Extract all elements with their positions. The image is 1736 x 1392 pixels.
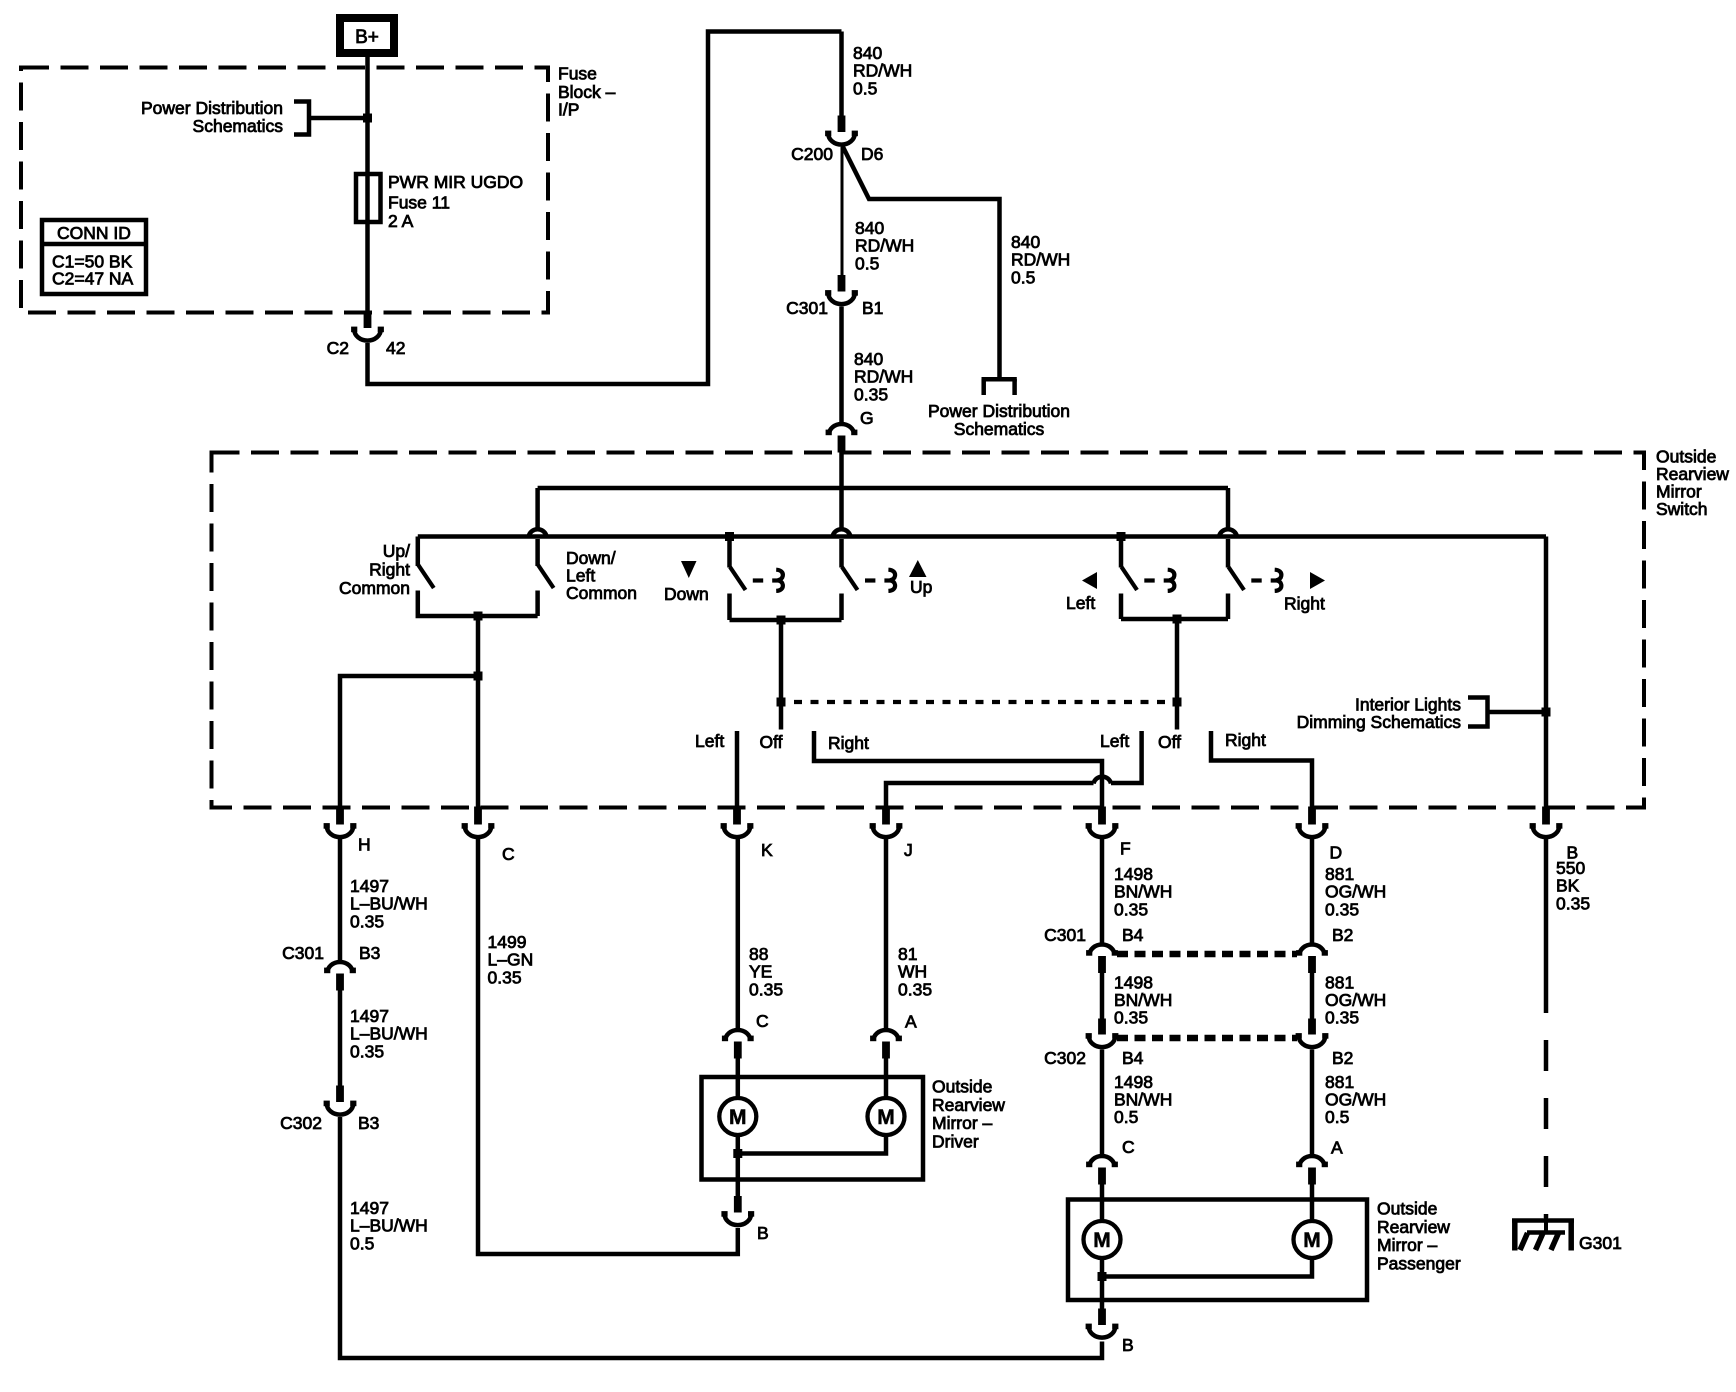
svg-text:2 A: 2 A <box>388 211 414 231</box>
rail Down/Up pair <box>730 618 842 623</box>
svg-text:B: B <box>757 1223 769 1243</box>
svg-text:C: C <box>1122 1137 1135 1157</box>
connector C301 pin B1 <box>838 275 846 292</box>
svg-text:M: M <box>1093 1229 1111 1252</box>
ground G301 symbol <box>1512 1218 1574 1223</box>
contact Right G1 <box>814 731 1102 807</box>
mechanical dashes C301 <box>1117 951 1297 958</box>
connector switch pin D <box>1308 807 1316 825</box>
svg-text:Left: Left <box>1066 593 1095 613</box>
wire B solid <box>1544 838 1549 1013</box>
wire J to driver A <box>884 838 889 1030</box>
svg-text:C: C <box>502 844 515 864</box>
svg-text:Left: Left <box>695 731 724 751</box>
svg-text:PWR MIR UGDO: PWR MIR UGDO <box>388 172 523 192</box>
svg-text:Rearview: Rearview <box>932 1095 1005 1115</box>
svg-text:C301: C301 <box>1044 925 1086 945</box>
svg-text:F: F <box>1120 839 1131 859</box>
outside rearview mirror switch dashed box <box>212 453 1645 808</box>
switch Down/Left Common <box>535 488 540 528</box>
svg-text:0.35: 0.35 <box>350 911 384 931</box>
connector driver mirror pin B <box>734 1196 742 1213</box>
svg-text:B1: B1 <box>862 298 883 318</box>
svg-text:0.35: 0.35 <box>1325 1008 1359 1028</box>
svg-text:Outside: Outside <box>1377 1199 1437 1219</box>
wire D C301 to C302 <box>1310 973 1315 1019</box>
outside rearview mirror passenger box <box>1068 1200 1367 1301</box>
wire B+ to fuse <box>365 57 370 312</box>
connector C302 pin B4 <box>1098 1019 1106 1035</box>
wire into driver box A <box>884 1059 889 1099</box>
svg-text:Driver: Driver <box>932 1132 979 1152</box>
svg-text:G: G <box>860 408 874 428</box>
svg-text:0.35: 0.35 <box>749 979 783 999</box>
wire passenger B out <box>1100 1277 1105 1309</box>
svg-text:C302: C302 <box>280 1113 322 1133</box>
svg-text:Right: Right <box>828 733 869 753</box>
svg-text:0.5: 0.5 <box>855 253 879 273</box>
passenger motor rail <box>1102 1258 1312 1277</box>
svg-text:Schematics: Schematics <box>193 116 284 136</box>
wire D to passenger A <box>1310 1050 1315 1156</box>
motor M passenger left <box>1084 1221 1121 1258</box>
connector switch pin J <box>882 807 890 825</box>
svg-text:Mirror –: Mirror – <box>932 1113 993 1133</box>
rail Left/Right pair <box>1121 617 1228 622</box>
svg-text:CONN ID: CONN ID <box>57 223 131 243</box>
driver motor rail <box>738 1135 886 1154</box>
fuse block dashed box <box>21 68 548 313</box>
svg-text:C301: C301 <box>282 943 324 963</box>
svg-text:Passenger: Passenger <box>1377 1254 1461 1274</box>
svg-text:42: 42 <box>386 338 405 358</box>
svg-text:0.35: 0.35 <box>1325 899 1359 919</box>
switch Up/Right Common <box>416 537 421 567</box>
svg-text:Off: Off <box>760 732 783 752</box>
svg-text:Dimming Schematics: Dimming Schematics <box>1297 712 1462 732</box>
svg-text:Fuse: Fuse <box>558 64 597 84</box>
wire B dashed continuation <box>1544 1013 1549 1218</box>
wire into passenger box C <box>1100 1185 1105 1222</box>
svg-text:C: C <box>756 1011 769 1031</box>
wire to pin H <box>340 676 478 807</box>
svg-text:Up/: Up/ <box>383 541 410 561</box>
junction dot B+ node <box>363 114 372 123</box>
svg-text:B4: B4 <box>1122 925 1144 945</box>
svg-text:0.5: 0.5 <box>1011 267 1035 287</box>
svg-text:0.5: 0.5 <box>1114 1107 1138 1127</box>
svg-text:0.5: 0.5 <box>350 1233 374 1253</box>
svg-text:Rearview: Rearview <box>1377 1217 1450 1237</box>
svg-text:B3: B3 <box>358 1113 379 1133</box>
svg-text:C301: C301 <box>786 298 828 318</box>
connector C200 pin D6 <box>838 116 846 133</box>
svg-text:B+: B+ <box>355 27 379 48</box>
wire F C301 to C302 <box>1100 973 1105 1019</box>
svg-text:A: A <box>1331 1138 1343 1158</box>
Down arrow symbol <box>681 561 697 578</box>
svg-text:Common: Common <box>339 578 410 598</box>
switch Up <box>839 488 844 528</box>
svg-text:0.35: 0.35 <box>854 384 888 404</box>
svg-text:Power Distribution: Power Distribution <box>141 98 283 118</box>
svg-text:B2: B2 <box>1332 1048 1353 1068</box>
connector C2 pin 42 <box>364 312 372 329</box>
svg-text:J: J <box>904 840 913 860</box>
B+ power symbol <box>340 18 394 53</box>
svg-text:Up: Up <box>910 577 932 597</box>
wire D to C301 B2 <box>1310 838 1315 943</box>
contact Left G2 <box>1111 731 1142 783</box>
switch Right <box>1226 488 1231 528</box>
wire common output <box>476 616 481 676</box>
svg-text:C2=47 NA: C2=47 NA <box>52 269 134 289</box>
svg-text:0.5: 0.5 <box>853 78 877 98</box>
connector switch pin F <box>1098 807 1106 825</box>
connector switch pin B <box>1542 807 1550 825</box>
power distribution tail symbol <box>982 377 1017 382</box>
wire H bottom run to passenger B <box>340 1117 1102 1358</box>
contact Left G1 <box>735 731 740 807</box>
svg-text:C2: C2 <box>327 338 349 358</box>
bus2 wire <box>418 534 1546 539</box>
svg-text:B: B <box>1122 1335 1134 1355</box>
svg-text:Down: Down <box>664 584 709 604</box>
fuse PWR MIR UGDO Fuse 11 2A <box>356 174 381 222</box>
svg-text:Right: Right <box>369 560 410 580</box>
svg-text:M: M <box>1303 1229 1321 1252</box>
wire branch to power distribution <box>843 146 1000 377</box>
connector C302 pin B2 <box>1308 1019 1316 1035</box>
wire H to C301 <box>338 838 343 960</box>
wire driver B out <box>736 1154 741 1197</box>
svg-text:D6: D6 <box>861 144 883 164</box>
svg-text:M: M <box>877 1106 895 1129</box>
switch Down <box>725 532 734 541</box>
svg-text:Right: Right <box>1284 594 1325 614</box>
wire F to passenger C <box>1100 1050 1105 1156</box>
contact Right G2 <box>1211 731 1312 807</box>
svg-text:0.35: 0.35 <box>1114 1008 1148 1028</box>
wire G to bus1 <box>839 453 844 489</box>
svg-text:M: M <box>729 1106 747 1129</box>
svg-text:Power Distribution: Power Distribution <box>928 401 1070 421</box>
wire into driver box <box>736 1059 741 1099</box>
svg-text:0.35: 0.35 <box>898 979 932 999</box>
svg-text:B3: B3 <box>359 943 380 963</box>
wiper output G2 <box>1175 619 1180 730</box>
svg-text:Off: Off <box>1158 732 1181 752</box>
switch Left <box>1117 532 1126 541</box>
svg-text:Common: Common <box>566 583 637 603</box>
wire to pin C <box>476 676 481 807</box>
bus1 wire <box>538 486 1228 491</box>
wire K to driver C <box>736 838 741 1030</box>
connector G into switch <box>829 424 854 435</box>
wire to C200 <box>839 32 844 117</box>
svg-text:Schematics: Schematics <box>954 419 1045 439</box>
svg-text:0.35: 0.35 <box>488 967 522 987</box>
Left arrow symbol <box>1082 572 1097 589</box>
svg-text:Left: Left <box>1100 731 1129 751</box>
Up arrow symbol <box>909 560 927 577</box>
bracket Interior Lights <box>1468 698 1488 727</box>
svg-text:Mirror –: Mirror – <box>1377 1235 1438 1255</box>
wire C2 loop to C200 <box>368 32 842 385</box>
wire C200 to C301 <box>841 147 844 275</box>
junction dot common output <box>474 612 483 621</box>
svg-text:K: K <box>761 840 773 860</box>
wire F to C301 <box>1100 838 1105 943</box>
svg-text:H: H <box>358 835 371 855</box>
wiper output G1 <box>779 620 784 730</box>
svg-text:G301: G301 <box>1579 1233 1622 1253</box>
svg-text:Fuse 11: Fuse 11 <box>388 193 450 213</box>
wire C to driver B <box>478 838 738 1254</box>
svg-text:0.35: 0.35 <box>1114 899 1148 919</box>
motor M driver left <box>719 1098 756 1135</box>
svg-text:I/P: I/P <box>558 100 579 120</box>
bracket to Power Distribution <box>294 102 309 135</box>
svg-text:B2: B2 <box>1332 925 1353 945</box>
connector switch pin H <box>336 807 344 825</box>
outside rearview mirror driver box <box>702 1077 924 1180</box>
wire into passenger box A <box>1310 1185 1315 1222</box>
svg-text:0.5: 0.5 <box>1325 1107 1349 1127</box>
connector switch pin C <box>474 807 482 825</box>
connector passenger mirror pin B <box>1098 1309 1106 1326</box>
svg-text:C200: C200 <box>791 144 833 164</box>
svg-text:Right: Right <box>1225 730 1266 750</box>
svg-text:Switch: Switch <box>1656 499 1708 519</box>
bus2 to pin B <box>1544 537 1549 808</box>
wire between C301 and C302 <box>338 991 343 1086</box>
connector switch pin K <box>733 807 741 825</box>
svg-text:0.35: 0.35 <box>1556 893 1590 913</box>
CONN ID table <box>42 220 146 294</box>
mechanical link dotted line <box>781 700 1177 704</box>
svg-text:A: A <box>905 1012 917 1032</box>
svg-text:Outside: Outside <box>932 1077 992 1097</box>
mechanical dashes C302 <box>1117 1035 1297 1042</box>
svg-text:D: D <box>1330 843 1343 863</box>
connector C302 pin B3 <box>336 1086 344 1103</box>
svg-text:0.35: 0.35 <box>350 1041 384 1061</box>
motor M passenger right <box>1294 1221 1331 1258</box>
wire C301 to G <box>839 307 844 423</box>
motor M driver right <box>868 1098 905 1135</box>
svg-text:B4: B4 <box>1122 1048 1144 1068</box>
svg-text:C302: C302 <box>1044 1048 1086 1068</box>
Right arrow symbol <box>1310 572 1325 589</box>
